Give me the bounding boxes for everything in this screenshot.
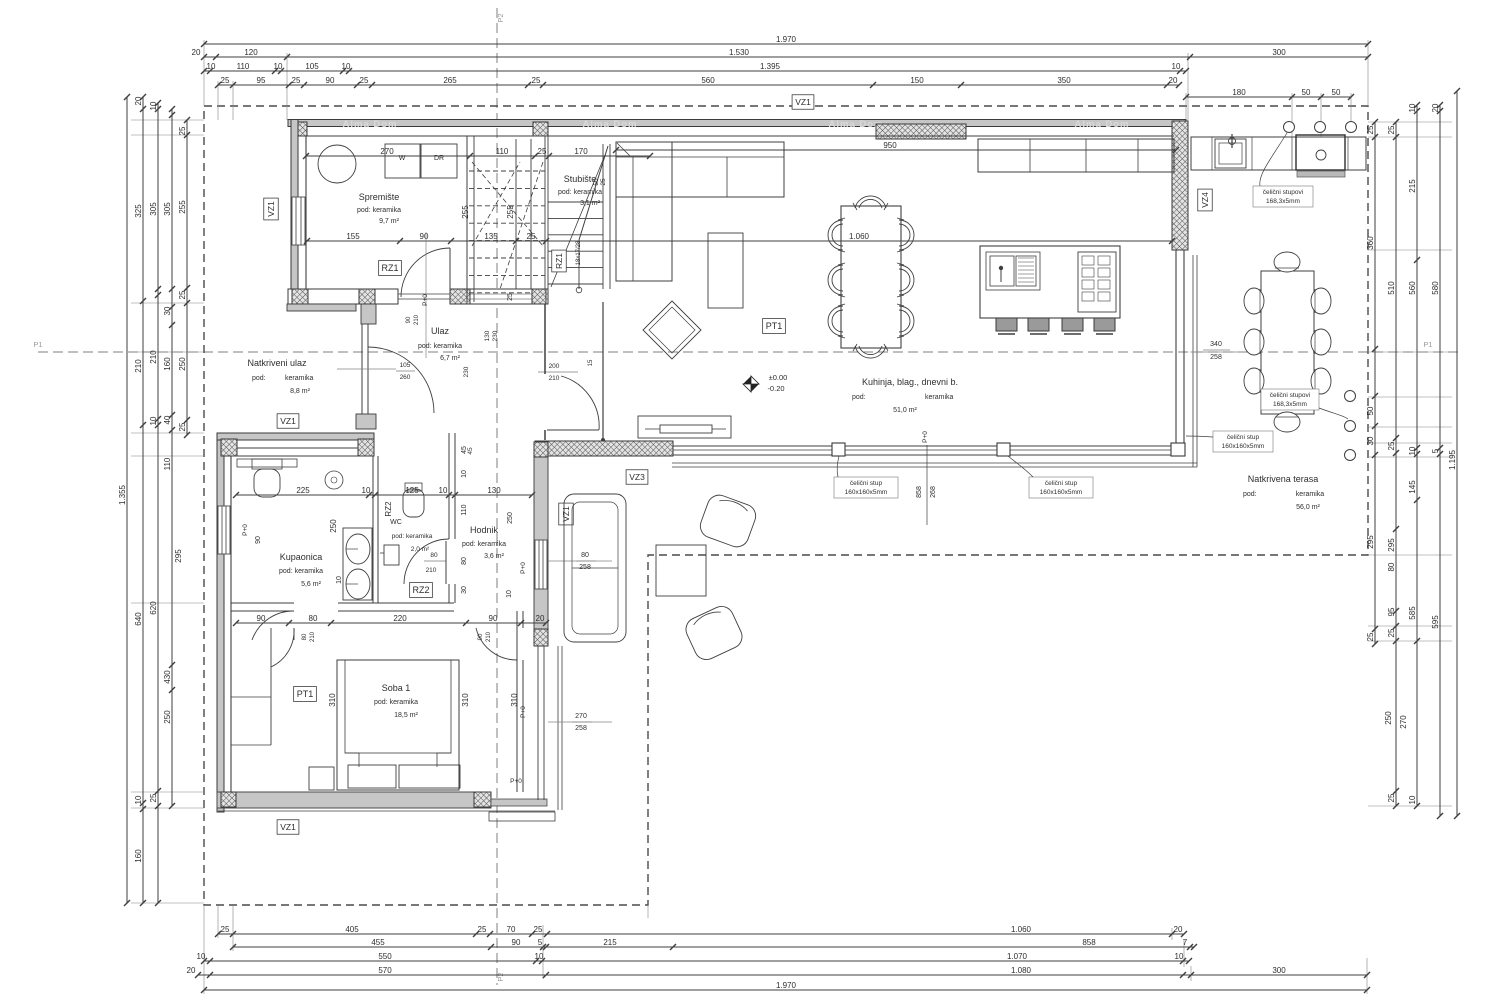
svg-text:265: 265 [443, 76, 457, 85]
svg-text:čelični stupovi: čelični stupovi [1270, 392, 1310, 399]
svg-text:110: 110 [163, 457, 172, 470]
svg-text:25: 25 [1387, 628, 1396, 637]
svg-text:560: 560 [1408, 281, 1417, 295]
svg-text:270: 270 [1399, 715, 1408, 729]
VZ3 box [626, 470, 648, 485]
svg-text:1.080: 1.080 [1011, 966, 1032, 975]
svg-text:270: 270 [380, 147, 394, 156]
stair direction arrow [578, 240, 580, 289]
label celicni stupovi bottom [1261, 389, 1319, 410]
svg-text:210: 210 [310, 631, 316, 642]
svg-text:18,5 m²: 18,5 m² [394, 712, 418, 719]
svg-text:40: 40 [163, 415, 172, 424]
svg-text:pod: keramika: pod: keramika [357, 207, 401, 214]
svg-text:8,8 m²: 8,8 m² [290, 388, 311, 395]
svg-text:čelični stup: čelični stup [1045, 480, 1078, 487]
svg-text:10: 10 [1172, 62, 1181, 71]
svg-text:Kuhinja, blag., dnevni b.: Kuhinja, blag., dnevni b. [862, 377, 958, 387]
svg-text:250: 250 [178, 357, 187, 371]
svg-text:2,0 m²: 2,0 m² [411, 546, 430, 553]
svg-text:VZ1: VZ1 [280, 416, 296, 426]
svg-text:Ulaz: Ulaz [431, 326, 450, 336]
VZ1 box bottom [277, 820, 299, 835]
svg-text:80: 80 [1387, 562, 1396, 571]
bed [337, 660, 459, 790]
svg-text:čelični stup: čelični stup [850, 480, 883, 487]
closet door arc soba [271, 628, 294, 667]
soba east window VZ1 [537, 646, 539, 800]
svg-text:170: 170 [574, 147, 588, 156]
armchair 2 [682, 602, 746, 663]
svg-text:310: 310 [461, 693, 470, 707]
svg-text:130: 130 [484, 330, 491, 341]
svg-text:7: 7 [1183, 938, 1188, 947]
svg-text:P+0: P+0 [510, 778, 522, 785]
svg-text:čelični stup: čelični stup [1227, 434, 1260, 441]
bathroom interior top edge [231, 455, 373, 457]
svg-text:105: 105 [305, 62, 319, 71]
soba east interior wall [516, 660, 518, 792]
dryer DR box [421, 144, 457, 178]
left dim chain 10/305/210/10/620/25 [157, 103, 159, 903]
svg-text:25: 25 [538, 147, 547, 156]
ulaz west wall upper stub [361, 304, 376, 324]
bbq unit [1296, 135, 1345, 170]
main entry door swing arc [368, 347, 434, 413]
svg-text:1.355: 1.355 [118, 484, 127, 505]
svg-text:595: 595 [1431, 615, 1440, 629]
svg-text:20: 20 [187, 966, 196, 975]
svg-text:640: 640 [134, 612, 143, 626]
coffee table diamond [643, 301, 701, 359]
dim row 225/10/125/10/130 [236, 494, 532, 496]
svg-text:310: 310 [328, 693, 337, 707]
svg-text:160x160x5mm: 160x160x5mm [1040, 489, 1083, 496]
svg-text:858: 858 [916, 486, 923, 498]
svg-text:10: 10 [439, 486, 448, 495]
svg-text:VZ3: VZ3 [629, 472, 645, 482]
spremiste dim row 270/110/25/170 [306, 155, 650, 157]
svg-text:10: 10 [1408, 795, 1417, 804]
svg-text:80: 80 [309, 614, 318, 623]
pier east bottom [534, 629, 548, 646]
svg-text:405: 405 [345, 925, 359, 934]
svg-text:P+0: P+0 [520, 562, 527, 574]
svg-text:25: 25 [360, 76, 369, 85]
VZ1 rotated terrace sofa [559, 503, 574, 525]
svg-text:keramika: keramika [1296, 491, 1325, 498]
svg-text:90: 90 [255, 536, 262, 544]
svg-text:30: 30 [1366, 436, 1375, 445]
dims 858/268 [926, 445, 928, 525]
PT1 soba [294, 687, 317, 702]
svg-text:215: 215 [1408, 179, 1417, 193]
ulaz west wall lower stub [356, 414, 376, 429]
dining chairs right [899, 220, 914, 250]
dimension row bottom 455/90/5/215/858/7 [233, 946, 1194, 948]
left dim chain 25/255/25/250/25 [186, 120, 188, 435]
svg-text:25: 25 [149, 793, 158, 802]
svg-text:3,6 m²: 3,6 m² [484, 553, 505, 560]
block top wall inner face [231, 447, 373, 449]
celicni stup label 1 [834, 477, 898, 498]
terrace sofa vertical [564, 494, 626, 642]
svg-text:±0.00: ±0.00 [769, 373, 788, 382]
pier block NW [221, 439, 237, 456]
svg-text:20: 20 [536, 614, 545, 623]
svg-text:VZ4: VZ4 [1200, 192, 1210, 208]
hodnik east wall to soba [516, 611, 518, 628]
terrace east edge vertical [1192, 255, 1194, 467]
svg-text:25: 25 [178, 290, 187, 299]
VZ4 rotated [1198, 189, 1213, 211]
stairwell boundary lines [466, 136, 468, 302]
wardrobe lines [270, 628, 272, 745]
svg-text:80: 80 [430, 552, 438, 559]
svg-text:200: 200 [549, 363, 560, 370]
svg-text:570: 570 [378, 966, 392, 975]
svg-text:268: 268 [930, 486, 937, 498]
hatched beam over kitchen [876, 124, 966, 139]
right dim chain 25/510/25/5/295/80/95/25 [1395, 122, 1397, 806]
block top wall strip [217, 433, 374, 440]
svg-text:PT1: PT1 [297, 689, 314, 699]
dim row 90/80/220/90/20 [236, 622, 546, 624]
toilet bath [252, 459, 282, 469]
ulaz east wall [544, 304, 546, 374]
svg-text:10: 10 [274, 62, 283, 71]
svg-text:10: 10 [461, 470, 468, 478]
block bottom wall [217, 792, 491, 808]
svg-text:25: 25 [292, 76, 301, 85]
side table [708, 233, 743, 308]
ulaz entry glazing double line [361, 324, 363, 414]
svg-text:255: 255 [506, 205, 515, 219]
svg-text:15: 15 [588, 359, 594, 366]
VZ1 rotated at spremiste [264, 198, 279, 220]
bar stools [996, 318, 1017, 331]
dimension row bottom 20/570/1080/300 [198, 974, 1367, 976]
svg-text:580: 580 [1431, 281, 1440, 295]
svg-text:135: 135 [484, 232, 498, 241]
svg-text:340: 340 [1210, 341, 1222, 348]
dimension row bottom total 1.970 [204, 989, 1367, 991]
svg-text:25: 25 [1366, 632, 1375, 641]
svg-text:310: 310 [510, 693, 519, 707]
stair bottom band [470, 289, 548, 304]
svg-text:260: 260 [400, 374, 411, 381]
svg-text:Natkriveni ulaz: Natkriveni ulaz [247, 358, 307, 368]
svg-text:20: 20 [1174, 925, 1183, 934]
svg-text:360: 360 [1366, 236, 1375, 250]
svg-text:50: 50 [1332, 88, 1341, 97]
svg-text:430: 430 [163, 670, 172, 684]
svg-text:5: 5 [1431, 448, 1440, 453]
svg-text:6,7 m²: 6,7 m² [440, 355, 461, 362]
svg-text:550: 550 [378, 952, 392, 961]
left dim chain total 1.355 [126, 97, 128, 903]
right dim chain total 1.195 [1456, 91, 1458, 816]
svg-text:RZ2: RZ2 [384, 501, 393, 517]
RZ1 box [379, 261, 402, 276]
wc door RZ2 leaf+arc [445, 541, 447, 584]
soba door leaf+arc [476, 628, 517, 660]
armchair 1 [697, 492, 759, 550]
svg-text:620: 620 [149, 601, 158, 615]
dim 950 row [616, 149, 1176, 151]
south wall hatched segment [535, 441, 673, 456]
living interior top edge [616, 135, 1174, 137]
east wall window [535, 540, 547, 589]
svg-text:1.195: 1.195 [1448, 449, 1457, 470]
svg-text:25: 25 [527, 232, 536, 241]
svg-text:čelični stupovi: čelični stupovi [1263, 189, 1303, 196]
svg-text:Alma Dom: Alma Dom [583, 119, 638, 130]
svg-text:1.970: 1.970 [776, 981, 797, 990]
svg-text:210: 210 [486, 631, 492, 642]
svg-text:125: 125 [405, 486, 419, 495]
svg-text:90: 90 [326, 76, 335, 85]
south glass wall VZ3 double line [673, 445, 1174, 447]
svg-text:1.070: 1.070 [1007, 952, 1028, 961]
svg-text:45: 45 [467, 447, 474, 455]
vanity counter with two sinks [343, 528, 372, 600]
svg-text:51,0 m²: 51,0 m² [893, 407, 917, 414]
right dim chain 20/580/10/595 [1439, 105, 1441, 816]
svg-text:VZ1: VZ1 [266, 201, 276, 217]
svg-text:9,7 m²: 9,7 m² [379, 218, 400, 225]
svg-text:VZ1: VZ1 [561, 506, 571, 522]
svg-text:295: 295 [1366, 535, 1375, 549]
svg-text:1.395: 1.395 [760, 62, 781, 71]
svg-text:pod: keramika: pod: keramika [392, 533, 433, 540]
svg-text:510: 510 [1387, 281, 1396, 295]
pier stairs SE [532, 289, 546, 304]
door RZ1 threshold [398, 293, 450, 295]
svg-text:130: 130 [487, 486, 501, 495]
pier block SE [474, 792, 491, 807]
svg-text:Alma Dom: Alma Dom [829, 119, 884, 130]
svg-text:255: 255 [461, 205, 470, 219]
svg-text:10: 10 [134, 795, 143, 804]
svg-text:110: 110 [461, 504, 468, 515]
svg-text:Spremište: Spremište [359, 192, 400, 202]
svg-text:pod:: pod: [1243, 491, 1257, 498]
svg-text:10: 10 [207, 62, 216, 71]
bathroom south wall [231, 602, 294, 604]
kitchen island [980, 246, 1120, 318]
svg-text:180: 180 [1232, 88, 1246, 97]
terrace deck edge below [672, 462, 1197, 464]
terrace chairs [1244, 288, 1264, 314]
svg-text:3,1 m²: 3,1 m² [580, 200, 601, 207]
label celicni stupovi top [1253, 186, 1313, 207]
svg-text:10: 10 [535, 952, 544, 961]
svg-text:90: 90 [489, 614, 498, 623]
extension lines [203, 40, 205, 106]
svg-text:455: 455 [371, 938, 385, 947]
block west wall inner face [230, 448, 232, 792]
pier stairs SW [450, 289, 470, 304]
svg-text:25: 25 [178, 126, 187, 135]
svg-text:5: 5 [538, 938, 543, 947]
svg-text:Alma Dom: Alma Dom [343, 119, 398, 130]
svg-text:RZ1: RZ1 [381, 263, 398, 273]
svg-text:90: 90 [478, 633, 484, 640]
tv console [638, 416, 731, 438]
svg-text:258: 258 [579, 564, 591, 571]
svg-text:270: 270 [575, 713, 587, 720]
svg-text:1.060: 1.060 [1011, 925, 1032, 934]
svg-text:95: 95 [257, 76, 266, 85]
spremiste left wall strip [291, 120, 298, 305]
dining chairs left [828, 220, 843, 250]
left dim chain 305/30/160/40/110/430/250 [171, 109, 173, 806]
svg-text:258: 258 [1210, 354, 1222, 361]
svg-text:168,3x5mm: 168,3x5mm [1273, 401, 1307, 408]
svg-text:250: 250 [1384, 711, 1393, 725]
bath vanity shelf [237, 459, 297, 467]
svg-text:P+0: P+0 [922, 431, 929, 443]
steel columns right circles [1345, 391, 1356, 402]
island cooktop [1078, 252, 1116, 312]
steel columns top circles [1284, 122, 1295, 133]
svg-text:Stubište: Stubište [564, 174, 597, 184]
terrace table [1261, 271, 1314, 414]
svg-text:Soba 1: Soba 1 [382, 683, 411, 693]
svg-text:10: 10 [1175, 952, 1184, 961]
centerline P2 vertical [496, 8, 498, 985]
svg-text:25: 25 [534, 925, 543, 934]
svg-text:pod: keramika: pod: keramika [374, 699, 418, 706]
svg-text:210: 210 [426, 567, 437, 574]
svg-text:25: 25 [221, 76, 230, 85]
svg-text:110: 110 [237, 62, 250, 71]
svg-text:300: 300 [1272, 966, 1286, 975]
dimension row top 20/120/1530/300 [204, 56, 1368, 58]
svg-text:keramika: keramika [285, 375, 314, 382]
VZ1 box on boundary [792, 95, 814, 110]
svg-text:95: 95 [1387, 607, 1396, 616]
washer W box [385, 144, 420, 178]
svg-text:160x160x5mm: 160x160x5mm [845, 489, 888, 496]
south step strip [491, 799, 547, 806]
washing machine circle [318, 145, 356, 183]
svg-text:210: 210 [414, 314, 420, 325]
pier spremiste SW [292, 289, 308, 304]
svg-text:10: 10 [342, 62, 351, 71]
svg-text:30: 30 [163, 306, 172, 315]
celicni stup label 2 [1029, 477, 1093, 498]
leader to stupovi label [1260, 133, 1287, 186]
porch edge strip below spremiste wall [287, 304, 356, 311]
pier block N mid [358, 439, 374, 456]
top wall interior face [306, 135, 1174, 137]
svg-text:585: 585 [1408, 606, 1417, 620]
svg-text:105: 105 [400, 362, 411, 369]
svg-text:50: 50 [1366, 406, 1375, 415]
svg-text:80: 80 [302, 633, 308, 640]
svg-text:30: 30 [461, 586, 468, 594]
svg-text:160: 160 [134, 849, 143, 863]
svg-text:P1: P1 [33, 340, 42, 349]
RZ2 box [410, 583, 433, 598]
pier east top [534, 442, 548, 457]
wc west wall [372, 456, 374, 603]
svg-text:-0.20: -0.20 [767, 384, 784, 393]
dimension row bottom 25/405/... [218, 933, 1184, 935]
svg-text:18x17/28: 18x17/28 [576, 240, 582, 265]
svg-text:258: 258 [575, 725, 587, 732]
svg-text:325: 325 [134, 204, 143, 218]
svg-text:1.970: 1.970 [776, 35, 797, 44]
PT1 living [763, 319, 786, 334]
svg-text:P+0: P+0 [422, 294, 429, 306]
svg-text:50: 50 [1302, 88, 1311, 97]
dimension row top 25/95... [218, 84, 1179, 86]
svg-text:25: 25 [221, 925, 230, 934]
bench/ottoman [309, 767, 334, 790]
centerline P1 horizontal [38, 351, 1462, 353]
big interior door 200 leaf+arc [547, 429, 599, 431]
svg-text:350: 350 [1057, 76, 1071, 85]
stair diagonal guides dashed [472, 162, 543, 246]
svg-text:255: 255 [178, 200, 187, 214]
svg-text:pod: keramika: pod: keramika [462, 541, 506, 548]
svg-text:P+0: P+0 [520, 706, 527, 718]
L-sofa [616, 142, 784, 197]
svg-text:5,6 m²: 5,6 m² [301, 581, 322, 588]
svg-text:20: 20 [1169, 76, 1178, 85]
wc sink [384, 545, 399, 565]
svg-text:P2: P2 [496, 972, 505, 981]
property boundary dashed [204, 106, 1368, 905]
svg-text:Kupaonica: Kupaonica [280, 552, 323, 562]
svg-text:25: 25 [1387, 793, 1396, 802]
svg-text:120: 120 [244, 48, 258, 57]
pier block SW [221, 792, 236, 807]
dimension row top right 180/50/50 [1186, 96, 1351, 98]
svg-text:250: 250 [163, 710, 172, 724]
water heater circle [325, 471, 343, 489]
block west wall strip [217, 433, 224, 812]
svg-text:pod:: pod: [852, 394, 866, 401]
right dim chain 25/360/50/30/295/25 [1374, 122, 1376, 644]
svg-text:90: 90 [420, 232, 429, 241]
outdoor kitchen counter [1191, 137, 1366, 170]
svg-text:90: 90 [512, 938, 521, 947]
svg-text:160: 160 [163, 357, 172, 371]
svg-text:10: 10 [506, 590, 513, 598]
RZ1 rotated near stairs [552, 250, 567, 272]
stair treads dashed (lower flight) [469, 170, 545, 172]
kitchen wall counter [978, 139, 1174, 172]
svg-text:560: 560 [701, 76, 715, 85]
outdoor sink [1215, 139, 1246, 168]
svg-text:pod: keramika: pod: keramika [418, 343, 462, 350]
svg-text:keramika: keramika [925, 394, 954, 401]
svg-text:250: 250 [329, 519, 338, 533]
svg-text:P+0: P+0 [242, 524, 249, 536]
svg-text:P2: P2 [496, 13, 505, 22]
svg-text:80: 80 [461, 557, 468, 565]
island sink [986, 252, 1040, 290]
svg-text:305: 305 [149, 202, 158, 216]
right dim chain 10/215/560/10/145/585/5 [1416, 105, 1418, 806]
svg-text:1.060: 1.060 [849, 232, 870, 241]
svg-text:pod:: pod: [252, 375, 266, 382]
svg-text:25: 25 [1366, 125, 1375, 134]
